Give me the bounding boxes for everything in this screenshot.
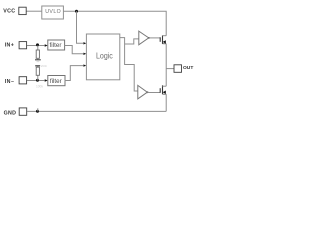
wire filter F1 to Logic [65,46,87,56]
resistor R1 pulldown [36,46,39,60]
svg-text:IN–: IN– [5,79,15,85]
pin IN- [5,77,27,85]
svg-text:IN+: IN+ [5,43,15,49]
wire UVLO to Logic [77,11,87,44]
wire Logic output trunk [120,38,138,91]
wire VCC pin to UVLO [27,10,42,12]
wire OUT tap [166,68,174,70]
wire top rail VCC [64,11,167,35]
ground symbol under R1 [35,60,41,62]
transistor Q2 (low-side NMOS) [160,85,166,94]
label value near filter F2 [36,85,43,89]
wire filter F2 to Logic [65,64,87,80]
svg-text:Logic: Logic [96,51,113,61]
label VCC at R2 [40,64,47,68]
svg-text:filter: filter [50,42,62,49]
wire A1 output to Q1 gate [149,37,161,39]
pin GND [4,108,27,117]
block filter F2 [48,76,65,86]
svg-text:100k: 100k [36,85,43,89]
wire right rail upper (Q1 source to Q2 drain) [165,44,167,86]
svg-text:filter: filter [50,78,62,85]
op-amp driver A2 (lower buffer) [138,85,149,99]
VCC rail symbol above R2 [35,65,40,67]
wire A2 output to Q2 gate [147,92,160,94]
op-amp driver A1 (upper buffer) [139,31,150,45]
transistor Q1 (high-side NMOS) [160,35,166,44]
node junction IN+ [36,43,39,46]
svg-text:VCC: VCC [40,64,47,68]
resistor R2 pullup [36,66,39,81]
svg-text:VCC: VCC [3,9,15,15]
wire right rail lower (Q2 source to ground rail) [165,94,167,111]
node junction on top rail [75,10,78,13]
pin OUT [174,65,193,73]
svg-text:OUT: OUT [183,65,193,71]
pin VCC [3,7,26,14]
wire bottom ground rail [27,110,166,112]
node junction IN- [36,79,39,82]
wire branch to upper driver [125,39,139,44]
wire IN- to filter [27,79,48,81]
block UVLO U1 [42,6,64,19]
node junction GND rail [36,108,39,112]
svg-text:UVLO: UVLO [45,9,61,15]
wire IN+ to filter [27,44,48,46]
pin IN+ [5,42,27,49]
svg-text:GND: GND [4,111,17,117]
block Logic [86,34,119,80]
block filter F1 [48,40,65,50]
